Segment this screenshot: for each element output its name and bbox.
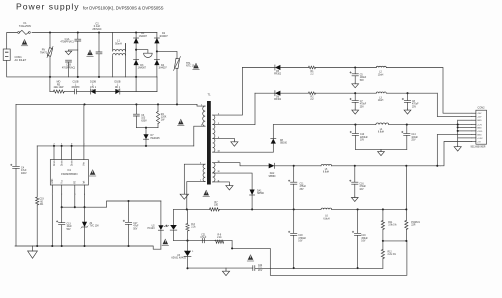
label C10	[360, 134, 368, 141]
wire P2 bottom tap	[187, 182, 205, 210]
ground tie stub	[380, 149, 382, 150]
warning triangle near C2	[87, 50, 94, 57]
capacitor C11	[288, 180, 297, 184]
svg-text:12: 12	[217, 171, 219, 173]
junction C2 bottom	[98, 76, 100, 78]
svg-text:10uF: 10uF	[67, 226, 73, 228]
wire rail2 segment b	[280, 92, 308, 94]
svg-text:+5VD: +5VD	[477, 131, 483, 133]
svg-text:1N4007: 1N4007	[159, 35, 168, 38]
wire IC FB pin	[74, 185, 76, 207]
wire x37 column lower	[36, 205, 38, 246]
label DA1	[257, 189, 265, 195]
capacitor C7	[350, 98, 359, 102]
wire L1 right top stub	[125, 43, 127, 50]
wire C17 upper	[128, 201, 130, 222]
junction bridge col1 bottom	[135, 76, 137, 78]
svg-text:250VAC: 250VAC	[92, 28, 101, 31]
warning triangle above transformer	[178, 119, 185, 126]
svg-text:HER105: HER105	[151, 137, 161, 140]
svg-text:25V: 25V	[300, 189, 305, 191]
IC1 pin numbers top	[53, 143, 84, 145]
label L1 50mH	[115, 40, 122, 46]
label R9	[217, 234, 222, 239]
label D10B/L	[90, 81, 97, 92]
junction CON2 gnd b	[457, 126, 459, 128]
resistor R1	[308, 66, 315, 69]
label D3	[138, 64, 147, 70]
wire row to bridge col1	[135, 77, 137, 92]
label L4	[378, 129, 384, 134]
svg-text:2KV: 2KV	[258, 270, 263, 272]
wire S2 mid tap	[213, 173, 253, 189]
svg-text:AC INLET: AC INLET	[15, 58, 27, 62]
wire HV rail	[16, 103, 197, 105]
svg-text:R12: R12	[388, 251, 393, 253]
wire CON2 gnd pin3	[458, 119, 472, 121]
svg-text:SB160: SB160	[280, 143, 288, 145]
wire C13 lower	[61, 225, 63, 246]
label R1	[310, 71, 314, 76]
diode D3 1N4007	[134, 60, 139, 65]
junction CON2 gnd a	[457, 124, 459, 126]
junction tie-R10	[186, 240, 188, 242]
wire row drop left	[49, 77, 51, 92]
junction rail4-x406	[405, 165, 407, 167]
junction CON2 gnd c	[457, 130, 459, 132]
svg-text:6.8uH: 6.8uH	[378, 132, 384, 134]
svg-text:T2AL250V: T2AL250V	[19, 24, 32, 28]
wire R11 upper	[382, 209, 384, 220]
svg-text:630V: 630V	[141, 119, 147, 122]
zener Z2 bar ticks	[81, 226, 88, 228]
label T1	[207, 93, 211, 97]
svg-text:Drain: Drain	[60, 160, 63, 166]
junction rail2-C8	[406, 92, 408, 94]
svg-text:450uF: 450uF	[361, 238, 368, 240]
svg-text:C14: C14	[411, 134, 416, 136]
svg-text:400V: 400V	[21, 172, 27, 175]
capacitor C10	[350, 131, 359, 135]
ground primary symbol	[28, 251, 38, 258]
junction zener node	[83, 206, 85, 208]
junction C19-rail6	[357, 267, 359, 269]
connector CON2 pin labels	[477, 113, 483, 143]
wire secondary ground rail b	[255, 267, 383, 269]
wire primary ground rail	[15, 246, 161, 249]
junction gnd rail GND pin	[51, 245, 53, 247]
wire C1A column upper	[77, 33, 79, 40]
wire C19 lower	[357, 235, 359, 268]
wire C18 column lower	[293, 235, 295, 268]
svg-text:5: 5	[83, 143, 84, 145]
wire R10 upper	[187, 209, 189, 223]
wire S2 bottom tap	[213, 182, 230, 185]
svg-text:16V: 16V	[298, 241, 303, 243]
label C22	[258, 265, 263, 272]
capacitor C22	[253, 266, 255, 271]
svg-text:50V: 50V	[133, 228, 138, 230]
svg-text:TVC 10V: TVC 10V	[90, 226, 100, 228]
wire C1B lower	[68, 62, 70, 77]
varistor RV	[47, 47, 53, 58]
svg-text:10E: 10E	[214, 205, 219, 207]
capacitor C1A	[75, 39, 81, 41]
svg-text:47uF: 47uF	[133, 226, 139, 228]
junction HV-NTC	[176, 103, 178, 105]
wire C2 column lower	[98, 54, 100, 77]
svg-text:3: 3	[74, 194, 75, 196]
svg-text:470uF: 470uF	[360, 104, 367, 106]
label D11B/L	[115, 81, 121, 92]
svg-text:1: 1	[61, 143, 62, 145]
label C17	[133, 223, 139, 230]
resistor R9 2.2k	[215, 240, 224, 243]
label C10B/L	[71, 81, 80, 90]
junction HV-IC pin	[83, 103, 85, 105]
junction C1A bottom	[77, 76, 79, 78]
wire AC line bottom	[7, 60, 50, 77]
connector CON2 pin stubs	[472, 113, 476, 141]
wire rail5 left corner	[173, 209, 175, 225]
label C21	[200, 234, 206, 239]
inductor L5	[321, 164, 332, 165]
wire varistor column	[49, 33, 51, 77]
svg-text:C19: C19	[361, 235, 366, 237]
svg-text:DA1: DA1	[257, 189, 262, 192]
junction drain-pin2	[61, 145, 63, 147]
label C16	[359, 183, 366, 190]
wire D7 upper	[145, 128, 147, 135]
wire rail3 segment b	[389, 124, 472, 126]
label C8	[412, 101, 419, 108]
diode D8 SB160	[271, 139, 276, 144]
svg-text:GND: GND	[477, 120, 482, 122]
transformer primary winding P1	[203, 106, 206, 126]
svg-text:5: 5	[200, 163, 201, 165]
svg-text:470uF: 470uF	[359, 186, 366, 188]
junction rail5-C19	[357, 208, 359, 210]
diode D1 1N4007	[134, 38, 139, 43]
wire x37 column upper	[36, 146, 38, 197]
svg-text:+3.3V: +3.3V	[477, 138, 483, 140]
svg-text:4: 4	[84, 194, 85, 196]
IC1 pin names top	[53, 160, 86, 166]
svg-text:25V: 25V	[412, 106, 417, 108]
junction gnd rail x37	[36, 245, 38, 247]
svg-text:16V: 16V	[359, 189, 364, 191]
wire Y-cap ground stub	[69, 49, 78, 51]
wire row segment 3	[77, 91, 91, 93]
capacitor C4	[10, 164, 19, 168]
wire rail2 to pin2	[437, 93, 472, 116]
svg-text:0: 0	[71, 143, 72, 145]
label C1B	[62, 64, 75, 70]
wire C5 upper	[354, 68, 356, 74]
label C2	[92, 22, 101, 31]
svg-text:1N4007: 1N4007	[138, 67, 147, 70]
svg-text:1: 1	[192, 251, 193, 253]
label RV	[40, 49, 48, 55]
resistor on x37 column	[36, 197, 39, 205]
label C19	[361, 235, 368, 242]
junction drain-pin3	[71, 145, 73, 147]
IC1 pin names bottom	[52, 178, 85, 183]
diode D2 1N4007	[154, 38, 159, 43]
capacitor C2	[96, 52, 102, 54]
wire C19 upper	[357, 209, 359, 233]
wire secondary ground rail	[188, 267, 253, 269]
wire R11 lower	[382, 230, 384, 241]
op-amp IC1 FSDM0565RN box	[50, 160, 88, 186]
wire C8 lower	[407, 102, 409, 109]
junction RV bottom	[49, 76, 51, 78]
capacitor C18	[288, 231, 297, 235]
label F1 T2AL250V	[19, 21, 32, 28]
diode D5 FR302	[275, 65, 281, 70]
junction C1A top	[77, 31, 79, 33]
wire U3 lower	[187, 256, 189, 268]
label R12	[388, 251, 396, 256]
junction P2-rail5	[186, 208, 188, 210]
ground P2 tap	[180, 193, 188, 199]
wire HV rail to primary top	[197, 104, 205, 106]
ground C7	[352, 109, 359, 114]
wire rail4 segment a	[274, 165, 321, 167]
wire rail2 segment c	[316, 92, 377, 94]
wire C4 lower	[15, 168, 17, 246]
label C1A	[60, 38, 73, 44]
label CON2 part number	[471, 147, 486, 149]
wire bottom AC rail	[50, 76, 157, 78]
warning triangle near opto	[162, 239, 169, 246]
diode D4 1N4007	[154, 60, 159, 65]
ground C16	[351, 196, 358, 201]
svg-text:10uH: 10uH	[378, 74, 384, 76]
diode D11B/L	[115, 89, 120, 94]
junction drain-D7	[145, 145, 147, 147]
wire C4 upper	[15, 104, 17, 166]
junction C18-rail6	[293, 267, 295, 269]
wire IC pin2 stub	[61, 146, 63, 160]
wire row to bridge col2	[156, 77, 158, 92]
label C3	[141, 114, 147, 123]
wire CON2 gnd vertical	[457, 120, 459, 145]
svg-text:475uF: 475uF	[300, 186, 307, 188]
transformer pin numbers	[200, 105, 220, 183]
wire D8 lower	[272, 144, 274, 153]
resistor R12 2.2k	[381, 249, 384, 258]
wire IC Vcc pin	[61, 185, 63, 207]
wire C3 lower	[135, 116, 137, 128]
wire C14 upper	[406, 125, 408, 134]
wire rail3 segment a	[273, 124, 376, 126]
connector CON2 box	[476, 110, 487, 144]
svg-text:22R: 22R	[411, 225, 416, 227]
label CON2	[478, 106, 486, 109]
wire C16 lower	[354, 184, 356, 196]
transformer T1 core	[207, 101, 211, 185]
wire C18 column upper	[293, 166, 295, 182]
svg-text:C19: C19	[39, 199, 44, 201]
wire IC pin4 stub	[83, 104, 85, 159]
wire feedback jog	[232, 241, 407, 276]
wire IC pin3 stub	[71, 146, 73, 160]
wire D7 lower	[145, 139, 147, 146]
wire C2 column upper	[98, 33, 100, 53]
junction C2 top	[98, 31, 100, 33]
junction gnd rail Z2	[83, 245, 85, 247]
wire rail2 segment d	[386, 92, 437, 94]
wire NTC to HV rail	[176, 68, 178, 104]
capacitor C21	[202, 238, 204, 242]
junction rail1-C5	[354, 66, 356, 68]
wire C14 lower	[406, 135, 408, 149]
wire D8 upper	[272, 125, 274, 139]
label R7	[214, 202, 219, 207]
label DA2	[269, 172, 277, 178]
svg-text:Drain: Drain	[70, 160, 73, 166]
resistor R2	[308, 92, 315, 95]
svg-text:10V: 10V	[360, 140, 365, 142]
capacitor C13	[56, 221, 65, 225]
wire row segment 5	[120, 91, 157, 93]
svg-text:C18: C18	[298, 235, 303, 237]
wire C3 upper	[135, 104, 137, 114]
svg-text:SB560: SB560	[269, 176, 277, 178]
warning triangle near C22	[247, 254, 254, 261]
resistor R13 22R	[405, 220, 408, 229]
label R on x37	[39, 199, 44, 206]
svg-text:2: 2	[61, 194, 62, 196]
wire L1 right	[125, 43, 127, 77]
svg-text:PC123: PC123	[147, 228, 155, 230]
wire opto element lower	[173, 230, 175, 240]
inductor L4	[376, 123, 389, 125]
svg-text:4700uF: 4700uF	[298, 238, 306, 240]
wire R10 lower	[187, 231, 189, 241]
diode D10B/L	[91, 89, 96, 94]
wire divider tie	[383, 240, 407, 242]
wire rail1 segment a	[242, 67, 275, 69]
capacitor C5	[350, 72, 359, 76]
wire rail1 segment b	[280, 67, 308, 69]
svg-text:25V: 25V	[411, 140, 416, 142]
junction rail5-C18	[293, 208, 295, 210]
wire U3 upper	[187, 241, 189, 251]
svg-text:C10: C10	[360, 134, 365, 136]
junction D2-D4 node	[156, 50, 158, 52]
wire CON2 pin6 stub	[458, 130, 472, 132]
wire C17 lower	[128, 224, 130, 246]
wire AC line top	[7, 33, 17, 50]
capacitor C10B/L	[75, 89, 77, 94]
wire S1 bottom tap	[213, 151, 274, 153]
wire P2 top tap to ground	[184, 164, 205, 193]
wire L1 left upper	[112, 33, 114, 51]
wire Vcc feed corner	[107, 201, 161, 207]
wire row segment 2	[64, 91, 74, 93]
inductor L6	[321, 208, 332, 209]
wire R13 lower	[405, 230, 407, 241]
warning triangle near fuse	[21, 39, 28, 46]
junction rail4-C16	[354, 165, 356, 167]
wire IC Ipk pin	[84, 185, 86, 207]
wire bridge column 2	[156, 33, 158, 77]
wire C10 lower	[354, 135, 356, 149]
svg-text:1: 1	[201, 105, 202, 107]
IC1 pin numbers bottom	[52, 194, 85, 196]
ground S1 tap	[231, 141, 238, 147]
warning triangle below core	[203, 190, 210, 197]
IC1 pin numbers bottom	[52, 194, 85, 196]
ground C8	[404, 109, 411, 114]
wire C16 upper	[354, 166, 356, 182]
label C18	[298, 235, 306, 242]
label CON1 AC INLET	[15, 55, 27, 62]
label D2	[159, 32, 168, 38]
IC1 pin numbers top	[53, 143, 84, 145]
svg-text:SB560: SB560	[257, 193, 265, 195]
diode D7 HER105	[143, 134, 148, 139]
wire R13 upper	[405, 166, 407, 221]
wire R12 upper stub	[382, 241, 384, 250]
svg-text:C17: C17	[133, 223, 138, 225]
ground C22 stub	[225, 268, 227, 270]
wire S2 top tap	[213, 163, 269, 166]
wire S1 mid tap	[213, 93, 255, 125]
U3 pin number	[192, 251, 193, 253]
inductor L1 winding 1	[113, 50, 126, 52]
wire S1 ground tap	[213, 138, 235, 140]
svg-text:Drain: Drain	[53, 160, 56, 166]
svg-text:2200uF: 2200uF	[360, 137, 368, 139]
svg-text:CON2: CON2	[478, 106, 486, 109]
svg-text:FR302: FR302	[274, 74, 282, 76]
label C5	[360, 74, 367, 81]
svg-text:Vstr: Vstr	[83, 162, 86, 166]
wire bridge to NTC	[157, 51, 177, 58]
transformer secondary winding S1	[213, 115, 215, 152]
capacitor C19	[352, 231, 361, 235]
label D1	[139, 32, 148, 38]
wire row segment 4	[96, 91, 116, 93]
label D8	[280, 140, 288, 145]
junction rail3-C10	[354, 124, 356, 126]
wire rail5 segment a	[174, 208, 210, 210]
svg-text:2: 2	[53, 143, 54, 145]
wire rail4 segment b	[332, 165, 441, 167]
opto U2 transistor element	[170, 225, 177, 230]
wire rail5 segment c	[332, 208, 407, 210]
ground C5	[352, 83, 359, 88]
junction Vcc node	[61, 206, 63, 208]
svg-text:2.2k 1%: 2.2k 1%	[388, 254, 396, 256]
inductor L2	[376, 66, 386, 67]
transformer pin numbers	[200, 105, 220, 183]
label R4	[161, 113, 167, 122]
capacitor C17	[123, 220, 132, 224]
label L5	[323, 169, 329, 174]
capacitor C16	[349, 180, 358, 184]
wire L1 left lower	[112, 56, 114, 77]
wire C5 lower	[354, 76, 356, 83]
wire C11 lower	[293, 184, 295, 209]
svg-text:25V: 25V	[360, 106, 365, 108]
capacitor C3	[133, 114, 139, 116]
junction RV top	[49, 31, 51, 33]
junction DA1-rail5	[251, 208, 253, 210]
